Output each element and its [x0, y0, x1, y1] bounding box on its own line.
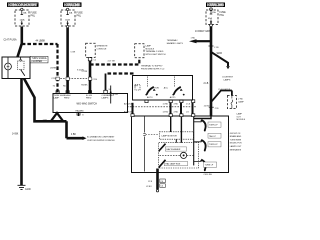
svg-text:COURTESY: COURTESY [222, 77, 234, 79]
svg-text:W/REMOTE: W/REMOTE [97, 46, 109, 48]
svg-text:14DB: 14DB [65, 19, 71, 21]
svg-text:5 GR: 5 GR [71, 52, 76, 54]
svg-text:MODEL FOR: MODEL FOR [230, 143, 242, 145]
svg-text:2 RD: 2 RD [238, 99, 243, 101]
svg-text:MODULE: MODULE [146, 48, 155, 50]
svg-text:1 RD: 1 RD [191, 38, 196, 40]
svg-text:PNL: PNL [77, 16, 82, 18]
svg-text:44 LB/BK: 44 LB/BK [36, 41, 46, 43]
svg-text:FROM WIRE SUPPLY 5.0: FROM WIRE SUPPLY 5.0 [141, 68, 165, 70]
svg-text:ACC: ACC [164, 86, 169, 89]
svg-text:ILLUMINATION COMPONENT: ILLUMINATION COMPONENT [87, 136, 115, 139]
svg-text:TURN LP: TURN LP [209, 125, 218, 127]
svg-text:LAMPS: LAMPS [102, 96, 109, 99]
svg-text:PNL: PNL [220, 15, 225, 17]
svg-text:HAZ LAMP RUN: HAZ LAMP RUN [165, 163, 180, 166]
svg-text:LAMP: LAMP [237, 113, 243, 116]
svg-text:LAMPS: LAMPS [224, 78, 231, 81]
svg-text:HAZARD: HAZARD [76, 110, 85, 113]
svg-text:4DA: 4DA [208, 17, 213, 20]
svg-text:12 B: 12 B [148, 181, 153, 183]
svg-text:WIG-WAG SWITCH: WIG-WAG SWITCH [77, 103, 98, 106]
svg-text:HOT AT ALL TIMES: HOT AT ALL TIMES [207, 3, 224, 7]
svg-text:FEED: FEED [86, 97, 92, 99]
svg-text:TURN LP: TURN LP [205, 165, 214, 167]
svg-text:BRAKE AND: BRAKE AND [230, 135, 242, 138]
svg-text:5 TRN: 5 TRN [82, 71, 88, 73]
svg-text:S.281: S.281 [113, 94, 119, 96]
svg-text:4 RD: 4 RD [174, 103, 179, 105]
svg-text:TERMINAL TO SUPPLY: TERMINAL TO SUPPLY [141, 65, 163, 68]
svg-text:LG: LG [186, 112, 189, 114]
svg-text:HAZ FLASHER: HAZ FLASHER [167, 148, 181, 151]
svg-text:2 LB: 2 LB [204, 83, 209, 85]
svg-text:P. ILLUM 2 P: P. ILLUM 2 P [219, 89, 231, 91]
svg-text:C147 P/USA: C147 P/USA [4, 38, 17, 41]
svg-text:HOT AT ALL TIMES: HOT AT ALL TIMES [64, 3, 81, 7]
svg-text:LAMP: LAMP [54, 96, 60, 99]
svg-text:CONSOLE: CONSOLE [97, 48, 107, 50]
svg-text:AUTO: AUTO [170, 96, 176, 99]
svg-text:13 RD: 13 RD [163, 112, 169, 114]
svg-text:C410 RH: C410 RH [204, 174, 213, 176]
svg-text:1 LB: 1 LB [186, 103, 191, 105]
svg-text:AUTO: AUTO [147, 96, 153, 99]
svg-text:TERMINAL/: TERMINAL/ [167, 39, 178, 42]
svg-text:14DA: 14DA [20, 18, 26, 21]
svg-text:11 RD: 11 RD [163, 103, 169, 105]
svg-text:FEED: FEED [64, 97, 70, 99]
svg-text:FUSE: FUSE [220, 12, 227, 14]
svg-text:4 LT GR: 4 LT GR [108, 60, 116, 62]
svg-text:TAIL LP: TAIL LP [209, 135, 217, 138]
svg-text:HAZARD LIGHTS: HAZARD LIGHTS [167, 42, 184, 45]
svg-text:14 BK: 14 BK [12, 134, 19, 136]
svg-text:14 B: 14 B [43, 119, 48, 121]
svg-text:RD/BK: RD/BK [81, 85, 88, 87]
svg-text:LAMPS OUT: LAMPS OUT [230, 145, 242, 148]
svg-text:PNL: PNL [31, 16, 36, 18]
svg-text:TURN LP: TURN LP [209, 144, 218, 146]
svg-text:4 RD: 4 RD [174, 112, 179, 114]
svg-text:FUSE: FUSE [77, 13, 84, 15]
svg-text:L/GRN: L/GRN [50, 68, 57, 70]
svg-text:TURN SIGNAL: TURN SIGNAL [32, 57, 48, 60]
svg-text:HOT IN ACCY RUN OR START: HOT IN ACCY RUN OR START [8, 3, 37, 7]
svg-text:FLASHER: FLASHER [32, 60, 43, 63]
svg-text:22 RD: 22 RD [204, 105, 210, 107]
svg-text:LAMP: LAMP [146, 45, 152, 48]
svg-text:LAMP: LAMP [238, 100, 244, 103]
svg-text:L2 BO: L2 BO [146, 186, 152, 188]
svg-text:TURN WIRE: TURN WIRE [230, 139, 242, 141]
svg-text:At RU/LB: At RU/LB [124, 102, 133, 105]
svg-text:CUSTOM CENTER CONSOLE: CUSTOM CENTER CONSOLE [87, 140, 115, 142]
svg-text:MODULE: MODULE [237, 119, 246, 121]
svg-text:MESSAGES: MESSAGES [230, 148, 242, 151]
svg-text:4 BK: 4 BK [71, 134, 76, 136]
svg-text:C 1B: C 1B [214, 47, 219, 49]
svg-text:FUSE: FUSE [31, 13, 38, 15]
svg-text:WITH LIGHT SWITCH: WITH LIGHT SWITCH [146, 54, 167, 56]
svg-text:RUN: RUN [155, 87, 160, 89]
svg-text:13 RD/LT GRN: 13 RD/LT GRN [195, 31, 211, 33]
svg-text:TERMINAL 5 USED: TERMINAL 5 USED [146, 50, 164, 53]
svg-text:G100: G100 [25, 189, 31, 191]
svg-text:At R/LGR: At R/LGR [124, 111, 133, 114]
svg-text:S206: S206 [217, 53, 223, 55]
svg-text:LAMP MONITOR: LAMP MONITOR [162, 135, 178, 138]
svg-text:GROUP OF: GROUP OF [230, 133, 241, 135]
